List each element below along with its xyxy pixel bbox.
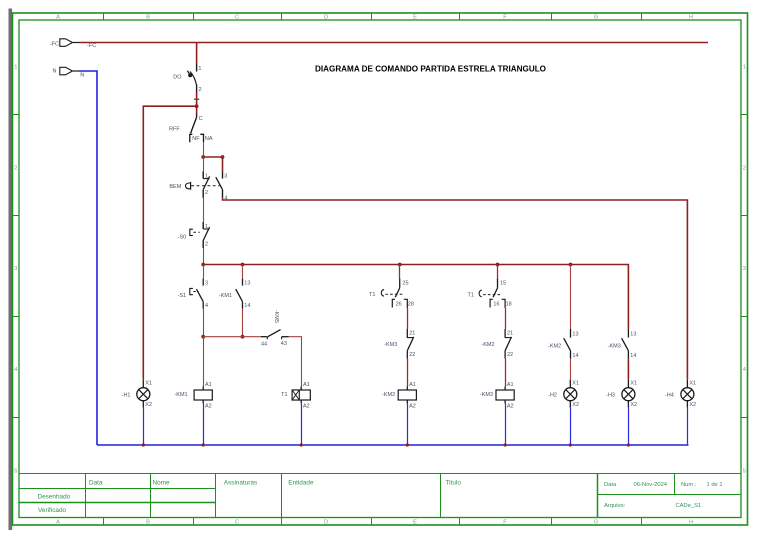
svg-text:X2: X2 [145,402,152,408]
wire to REM NC [203,157,205,172]
title block lines [19,473,741,518]
svg-text:-FC: -FC [50,41,59,47]
svg-text:X2: X2 [689,402,696,408]
wire S1 drop [203,265,205,279]
frame shadow bar [9,9,13,531]
svg-text:1 de 1: 1 de 1 [707,482,723,488]
wire T1b to KM2 NC [505,308,507,329]
svg-text:4: 4 [14,367,17,373]
wire split [203,156,222,158]
wire KM1 coil to bus [203,404,205,445]
svg-text:Desenhado: Desenhado [38,494,71,501]
svg-text:43: 43 [281,341,287,347]
terminal -FC [50,39,79,48]
svg-text:F: F [503,15,507,21]
node RFF junction [195,104,199,108]
svg-text:14: 14 [244,303,250,309]
svg-text:2: 2 [205,241,208,247]
svg-text:-KM1: -KM1 [174,392,187,398]
svg-text:X1: X1 [689,381,696,387]
node tick [194,98,199,100]
svg-text:5: 5 [14,469,17,475]
frame numbers left [14,65,17,475]
svg-text:D: D [324,15,328,21]
wire REM4 to H4 [223,198,688,380]
svg-text:-KM3: -KM3 [384,342,397,348]
svg-text:T1: T1 [468,292,474,298]
svg-text:15: 15 [500,280,506,286]
svg-text:-S1: -S1 [178,293,187,299]
svg-text:X2: X2 [630,402,637,408]
svg-text:H: H [689,15,693,21]
timed contact T1 25-26-28 [369,279,414,309]
node bus T1a [398,263,402,267]
svg-text:18: 18 [506,302,512,308]
svg-text:C: C [235,15,239,21]
svg-text:CADe_S1: CADe_S1 [676,503,702,509]
node junction KM1 [241,335,245,339]
svg-text:G: G [594,15,598,21]
svg-text:5: 5 [743,469,746,475]
lamp -H3 [606,380,637,408]
wire KM2 coil to bus [407,404,409,445]
svg-text:B: B [146,520,150,526]
terminal N [53,67,79,75]
wire KM1 coil feed [203,337,205,387]
node bus KM1 [241,263,245,267]
frame letters bottom [56,520,693,526]
node blue KM1 [202,443,205,446]
lamp -H1 [122,380,152,408]
coil -KM3 [480,382,514,409]
svg-text:Arquivo:: Arquivo: [604,503,626,509]
svg-text:A: A [56,15,60,21]
svg-text:C: C [199,116,203,122]
svg-text:RFF: RFF [169,126,180,132]
svg-text:A1: A1 [205,382,212,388]
svg-text:DO: DO [173,74,182,80]
svg-text:13: 13 [244,281,250,287]
svg-text:44: 44 [261,341,267,347]
wire DO feed [196,43,198,65]
contact -KM1 13-14 [219,279,251,309]
svg-text:G: G [594,520,598,526]
svg-text:28: 28 [408,302,414,308]
wire KM1 to junction [242,309,244,337]
wire T1a drop [399,265,401,279]
pushbutton -S0 [178,222,210,248]
svg-text:A1: A1 [303,382,310,388]
svg-text:13: 13 [572,331,578,337]
node blue H2 [569,443,572,446]
svg-text:4: 4 [205,303,208,309]
svg-text:-H1: -H1 [122,392,131,398]
wire T1b drop [497,265,499,279]
svg-text:Assinaturas: Assinaturas [224,480,257,487]
wire H1 branch [143,106,196,380]
wire H4 to bus [687,408,689,445]
contact -KM5 43-44 [261,310,289,348]
wire S0 to bus [203,248,205,265]
svg-text:-KM3: -KM3 [608,343,621,349]
wire T1a to KM3 NC [407,308,409,329]
wire KM2 to H2 [570,359,572,380]
svg-text:3: 3 [224,174,227,180]
svg-text:-KM5: -KM5 [273,310,279,323]
svg-text:2: 2 [199,87,202,93]
svg-text:13: 13 [630,331,636,337]
svg-text:4: 4 [743,367,746,373]
breaker DO [173,64,201,93]
svg-text:B: B [146,15,150,21]
svg-text:1: 1 [198,66,201,72]
svg-text:3: 3 [14,266,17,272]
node split left [201,155,205,159]
wire blue bottom bus [97,444,689,446]
svg-text:Titulo: Titulo [446,480,462,487]
svg-text:3: 3 [205,281,208,287]
svg-text:1: 1 [14,65,17,71]
svg-text:2: 2 [205,190,208,196]
node blue KM2 [406,443,409,446]
svg-text:-S0: -S0 [178,234,187,240]
wire REM2 to S0 [203,198,205,222]
svg-text:A: A [56,520,60,526]
svg-text:-KM2: -KM2 [382,392,395,398]
svg-text:22: 22 [409,352,415,358]
svg-text:H: H [689,520,693,526]
wire NA down [203,142,205,157]
svg-text:E: E [413,15,417,21]
svg-text:DIAGRAMA DE COMANDO PARTIDA ES: DIAGRAMA DE COMANDO PARTIDA ESTRELA TRIA… [315,64,546,74]
contact -KM2 13-14 [548,329,578,359]
node split right [221,155,225,159]
svg-text:1: 1 [743,65,746,71]
coil -KM2 [382,382,416,409]
svg-text:2: 2 [743,166,746,172]
node blue H3 [627,443,630,446]
frame letters top [56,15,693,21]
svg-text:-KM1: -KM1 [219,293,232,299]
frame numbers right [743,65,746,475]
pushbutton -S1 [178,279,208,309]
svg-text:Verificado: Verificado [38,507,67,514]
svg-text:26: 26 [396,302,402,308]
svg-text:A2: A2 [303,403,310,409]
timed contact T1 15-16-18 [468,279,512,309]
svg-text:N: N [53,68,57,74]
wire RFF feed [196,106,198,114]
wire FC bus [79,42,708,44]
svg-text:2: 2 [14,166,17,172]
node junction S1 [201,335,205,339]
selector RFF [169,115,213,143]
svg-text:-KM3: -KM3 [480,392,493,398]
svg-text:D: D [324,520,328,526]
svg-text:Data: Data [89,480,103,487]
svg-text:21: 21 [507,331,513,337]
svg-text:T1: T1 [281,392,287,398]
svg-text:-H4: -H4 [665,392,674,398]
wire H2 drop [570,265,572,330]
wire H3 to bus [628,408,630,445]
wire rung bus [203,265,628,330]
wire H1 to bus [143,408,145,445]
svg-text:06-Nov-2024: 06-Nov-2024 [634,482,668,488]
svg-text:Nome: Nome [153,480,170,487]
node blue H1 [142,443,145,446]
svg-text:C: C [235,520,239,526]
svg-text:E: E [413,520,417,526]
pushbutton BEM (emergency) [169,172,227,202]
svg-text:-FC: -FC [87,43,96,49]
svg-text:25: 25 [402,280,408,286]
node blue T1 [300,443,303,446]
wire S1 to junction [203,309,205,337]
wire KM3 coil to bus [505,404,507,445]
svg-text:A2: A2 [507,403,514,409]
timer coil T1 [281,382,310,409]
svg-text:Num.:: Num.: [681,482,697,488]
svg-text:X1: X1 [630,381,637,387]
svg-text:14: 14 [572,353,578,359]
wire KM3 to H3 [627,359,629,380]
svg-text:-KM2: -KM2 [548,343,561,349]
svg-text:NA: NA [205,136,213,142]
wire KM1 drop [242,265,244,279]
svg-text:F: F [503,520,507,526]
svg-text:22: 22 [507,352,513,358]
wire N run [79,71,97,445]
svg-text:X1: X1 [572,381,579,387]
node bus S1 [201,263,205,267]
svg-text:-KM2: -KM2 [481,342,494,348]
wire KM5 to T1 coil [289,337,302,387]
wire DO to junction [196,92,198,106]
svg-text:T1: T1 [369,292,375,298]
lamp -H4 [665,380,696,408]
wire T1 coil to bus [301,404,303,445]
svg-text:21: 21 [409,331,415,337]
svg-text:-H2: -H2 [548,392,557,398]
svg-text:16: 16 [493,302,499,308]
contact -KM2 21-22 [481,329,513,359]
svg-text:A1: A1 [507,382,514,388]
wire to KM3 coil [505,359,507,387]
wire junction row [203,336,261,338]
svg-text:Data: Data [604,482,617,488]
svg-text:-H3: -H3 [606,392,615,398]
node bus T1b [496,263,500,267]
title block labels [38,480,723,515]
node blue KM3 [504,443,507,446]
svg-text:BEM: BEM [169,184,181,190]
svg-text:X1: X1 [145,381,152,387]
svg-text:N: N [80,73,84,79]
contact -KM3 13-14 [608,329,637,359]
wire to REM NO [222,157,224,172]
svg-text:X2: X2 [572,402,579,408]
svg-text:14: 14 [630,353,636,359]
svg-text:NF: NF [192,136,200,142]
wire to KM2 coil [407,359,409,387]
lamp -H2 [548,380,579,408]
wire H2 to bus [570,408,572,445]
svg-text:3: 3 [743,266,746,272]
svg-text:Entidade: Entidade [288,480,314,487]
svg-text:A1: A1 [409,382,416,388]
node bus H2 [569,263,573,267]
coil -KM1 [174,382,212,409]
svg-text:A2: A2 [205,403,212,409]
svg-text:A2: A2 [409,403,416,409]
contact -KM3 21-22 [384,329,415,359]
